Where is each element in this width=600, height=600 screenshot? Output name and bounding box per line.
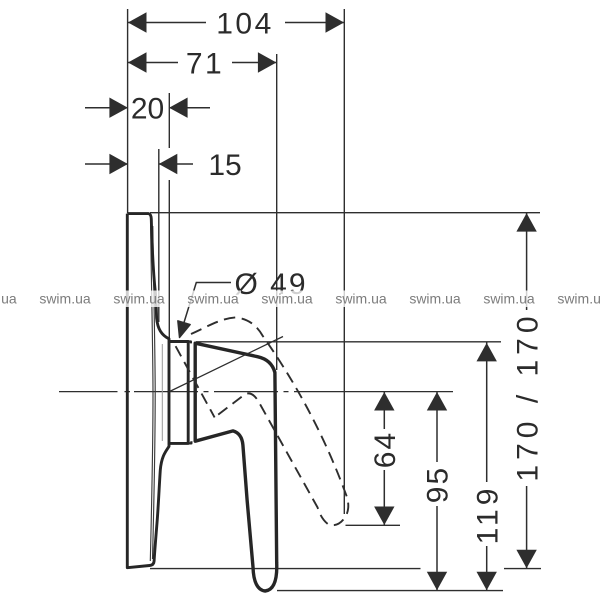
dimension line 104: [128, 22, 206, 24]
svg-text:64: 64: [369, 431, 402, 468]
handle outline: [195, 343, 277, 591]
arrow 20 left (points right): [109, 98, 128, 118]
arrow 64 down: [374, 507, 394, 526]
dimension line 95 x=437: [436, 392, 438, 462]
centerline horizontal y=391.5 dash-dot: [59, 391, 453, 393]
arrow 104 left: [128, 12, 147, 32]
svg-text:swim.ua: swim.ua: [335, 291, 387, 307]
dimension line 170/170 x=526.5: [526, 213, 528, 310]
arrow 95 up: [427, 392, 447, 411]
dimension line 71: [128, 62, 178, 64]
dimension line 119 x=486.5: [486, 343, 488, 483]
arrow 119 down: [477, 572, 497, 591]
extension line 15 right x=158.8: [158, 149, 160, 322]
svg-text:119: 119: [471, 485, 504, 545]
svg-text:104: 104: [216, 8, 274, 41]
extension line left (wall face) x=127.5: [127, 9, 129, 213]
svg-text:swim.ua: swim.ua: [261, 291, 313, 307]
dimension line 64 x=384: [383, 392, 385, 429]
hub front edge extra weight: [194, 343, 196, 441]
leader line for diameter 49: [180, 283, 231, 335]
svg-text:170 / 170: 170 / 170: [511, 311, 544, 481]
watermark texts swim.ua: [0, 291, 600, 307]
extension line plate top y=212.5: [150, 212, 540, 214]
svg-text:swim.ua: swim.ua: [483, 291, 535, 307]
arrow 95 down: [427, 572, 447, 591]
svg-text:95: 95: [422, 466, 455, 503]
extension line 71 right x=276.5: [276, 54, 278, 370]
arrow 170 up: [516, 213, 536, 232]
arrow 119 up: [477, 343, 497, 362]
sleeve: [169, 342, 188, 444]
arrow 20 right (points left): [169, 98, 188, 118]
arrow 71 left: [128, 52, 147, 72]
dashed alternate handle position: [176, 317, 349, 525]
escutcheon plate outline: [127, 214, 276, 591]
extension line 20 right x=169.3: [168, 93, 170, 148]
watermark background boxes: [0, 291, 600, 308]
extension line dashed tip y=525.5: [346, 524, 401, 526]
svg-text:swim.ua: swim.ua: [39, 291, 91, 307]
extension line lever tip y=590.5: [277, 590, 503, 592]
arrowheads: [109, 12, 536, 590]
dimension line 15: [85, 163, 128, 165]
leader arrowhead: [178, 321, 190, 338]
svg-text:15: 15: [208, 149, 241, 182]
svg-text:swim.ua: swim.ua: [409, 291, 461, 307]
rotated centerline (alternate position): [168, 337, 284, 393]
arrow 15 right (points left): [159, 154, 178, 174]
dimension line 20 (outside arrows tails): [85, 107, 128, 109]
svg-text:71: 71: [186, 48, 224, 81]
arrow 170 down: [516, 550, 536, 569]
svg-text:swim.ua: swim.ua: [113, 291, 165, 307]
arrow 64 up: [374, 392, 394, 411]
dimension texts: [131, 8, 544, 545]
extension line handle top y=341.8: [196, 341, 501, 343]
extension line 104 right x=344.5: [343, 9, 345, 514]
svg-text:swim.ua: swim.ua: [187, 291, 239, 307]
arrow 104 right: [326, 12, 345, 32]
svg-text:swim.ua: swim.ua: [0, 291, 17, 307]
arrow 15 left (points right): [109, 154, 128, 174]
svg-text:20: 20: [131, 93, 164, 126]
plate thin contour lines: [150, 224, 162, 561]
extension line plate bottom y=568.5: [150, 568, 421, 570]
arrow 71 right: [258, 52, 277, 72]
svg-text:swim.ua: swim.ua: [557, 291, 600, 307]
